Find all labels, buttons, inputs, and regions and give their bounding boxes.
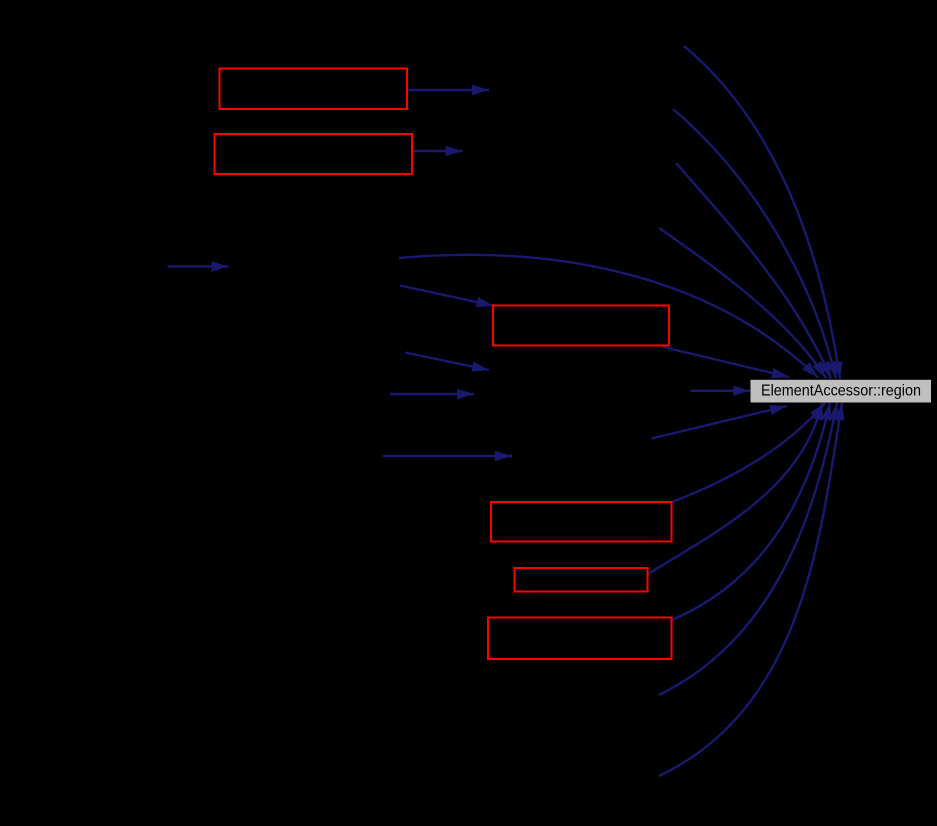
svg-text:ElementAccessor::region: ElementAccessor::region bbox=[761, 382, 921, 399]
